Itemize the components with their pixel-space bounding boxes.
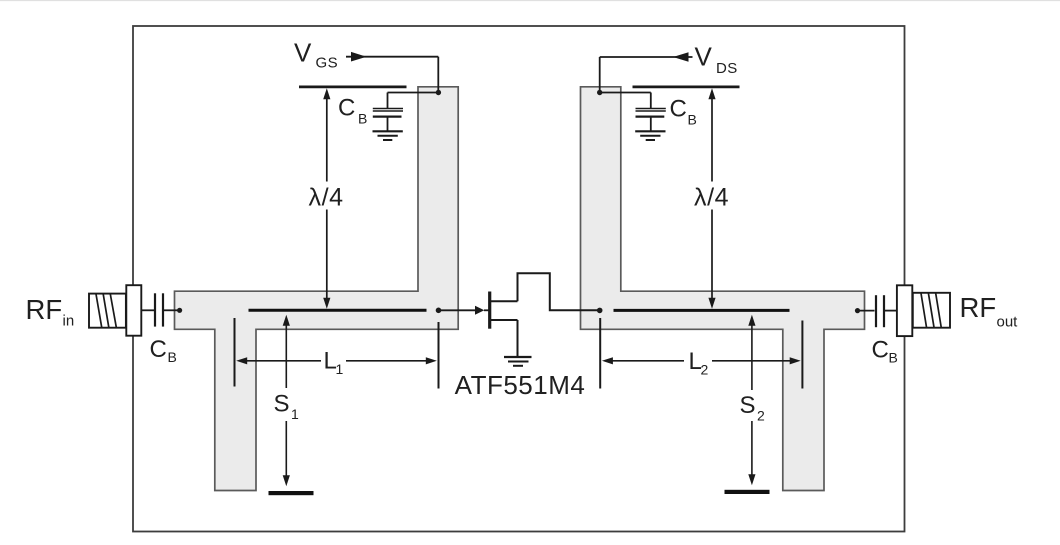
svg-text:C: C — [670, 96, 687, 123]
open-end reference bar left — [299, 86, 407, 89]
label RFin — [26, 294, 75, 329]
node gate-bias junction — [436, 90, 441, 95]
coax connector input body (white rect on frame) — [126, 285, 141, 336]
open-end reference bar right — [633, 86, 740, 89]
wire junction to CB bypass left — [388, 92, 439, 94]
svg-text:C: C — [338, 95, 355, 122]
dimension L2 — [602, 348, 801, 378]
capacitor CB bypass right — [636, 93, 666, 131]
ground reference bar S2 — [725, 490, 770, 494]
svg-text:RF: RF — [960, 292, 997, 323]
transistor Q1 ATF551M4 — [490, 273, 600, 356]
microstrip line L1 (thick) — [249, 309, 427, 312]
svg-text:1: 1 — [291, 406, 299, 422]
svg-text:2: 2 — [701, 362, 709, 378]
wire VGS down to stub — [437, 57, 439, 93]
wire to gate with arrow — [439, 306, 489, 315]
svg-text:DS: DS — [716, 60, 738, 77]
VGS feed arrow — [346, 52, 438, 62]
wire connector to CB input — [141, 309, 154, 311]
svg-text:C: C — [150, 336, 167, 363]
svg-text:B: B — [889, 350, 898, 366]
wire microstrip to CB output — [858, 310, 875, 312]
ground reference bar S1 — [269, 491, 314, 495]
dimension S2 — [740, 315, 766, 485]
wire CB output to connector — [885, 310, 897, 312]
svg-text:S: S — [274, 391, 290, 418]
microstrip line L2 (thick) — [614, 309, 790, 312]
node drain-bias junction — [597, 90, 602, 95]
VDS feed arrow — [600, 52, 693, 62]
label VGS — [294, 38, 338, 72]
dimension L1 ticks — [234, 318, 236, 387]
capacitor CB input — [155, 293, 163, 326]
node gate junction — [436, 308, 442, 314]
svg-text:V: V — [294, 38, 312, 68]
dimension L2 ticks — [599, 318, 601, 389]
faint page-top rule — [0, 0, 1060, 2]
coax connector input (hatched) — [89, 294, 126, 328]
svg-text:out: out — [997, 314, 1019, 331]
svg-text:λ/4: λ/4 — [694, 183, 729, 211]
svg-text:λ/4: λ/4 — [309, 183, 344, 211]
dimension S1 — [274, 315, 300, 486]
svg-text:RF: RF — [26, 294, 63, 325]
ground CB bypass left — [373, 131, 403, 140]
figure border frame — [133, 26, 905, 532]
svg-text:B: B — [168, 349, 177, 365]
wire VDS down to stub — [599, 57, 601, 93]
svg-text:V: V — [695, 41, 713, 71]
coax connector output (hatched) — [913, 293, 950, 328]
svg-text:B: B — [688, 112, 697, 128]
label CB bypass right — [670, 96, 697, 128]
svg-text:GS: GS — [316, 54, 338, 71]
node input line — [177, 308, 182, 313]
dimension lambda/4 right — [694, 88, 729, 308]
svg-text:ATF551M4: ATF551M4 — [455, 370, 586, 400]
microstrip network left (gray T-shape with lambda/4 stub and S1 stub) — [175, 87, 459, 491]
node output line — [855, 308, 860, 313]
capacitor CB bypass left — [373, 93, 403, 131]
label RFout — [960, 292, 1019, 331]
label CB output — [872, 337, 898, 366]
svg-text:in: in — [63, 313, 75, 330]
capacitor CB output — [876, 295, 884, 327]
coax connector output body (white rect on frame) — [897, 285, 912, 336]
ground CB bypass right — [635, 131, 665, 140]
dimension L1 — [236, 348, 437, 378]
node drain junction — [597, 308, 603, 314]
wire CB input to microstrip — [164, 309, 180, 311]
label VDS — [695, 41, 738, 77]
svg-text:S: S — [740, 392, 756, 419]
dimension lambda/4 left — [309, 88, 344, 308]
svg-text:C: C — [872, 337, 889, 364]
svg-text:B: B — [358, 111, 367, 127]
svg-text:1: 1 — [336, 361, 344, 377]
microstrip network right (gray T-shape with lambda/4 stub and S2 stub) — [581, 87, 865, 491]
wire junction to CB bypass right — [600, 92, 651, 94]
ground source — [504, 357, 532, 366]
label CB bypass left — [338, 95, 367, 127]
svg-text:2: 2 — [757, 408, 765, 424]
label CB input — [150, 336, 177, 365]
